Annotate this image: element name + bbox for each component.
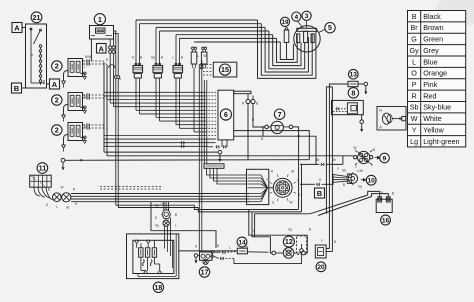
svg-text:6: 6 [224, 110, 228, 119]
arrow to label 10 [361, 178, 366, 181]
svg-text:B: B [343, 183, 345, 187]
svg-text:9: 9 [383, 155, 387, 162]
handlebar switch 18 (outer box) [127, 234, 179, 279]
svg-text:Ch: Ch [155, 204, 159, 208]
relay unit 10 [347, 172, 357, 185]
leads from CDI 11 to bullets [34, 187, 53, 199]
multi-pin connector (main switch coupler) [269, 174, 296, 201]
svg-text:Gy: Gy [155, 224, 159, 228]
coil lead drops to bundle [136, 68, 194, 132]
wire y230 to switch 17 area [151, 202, 216, 248]
main switch 1 [90, 26, 117, 40]
label circle 20 [316, 262, 326, 272]
svg-text:P: P [252, 118, 254, 122]
svg-text:L: L [197, 54, 199, 58]
relay 1 output connector chain [87, 60, 107, 66]
wire y155.8 to flasher 9 [107, 155, 353, 157]
horn right wire to ground [293, 127, 301, 139]
bus corner wires to tail circuit [194, 205, 301, 212]
svg-text:R: R [411, 91, 416, 100]
wire y152 to joint ground [104, 151, 218, 153]
label circle 5 [325, 23, 335, 33]
svg-text:L: L [84, 65, 86, 69]
sidestand switch 17 [194, 250, 214, 264]
ground above joint connector [218, 150, 222, 162]
svg-text:W: W [203, 54, 206, 58]
relay 2 output connector chain [87, 94, 107, 100]
fuse unit 13 [348, 81, 358, 86]
ground terminal above CDI area [61, 158, 65, 170]
harness vertical x332 [331, 87, 333, 252]
leader lines 4,3 [298, 21, 304, 28]
label circle 18 [153, 282, 163, 292]
CDI unit 11 [30, 175, 52, 187]
wire A-box to switch 21 [22, 27, 26, 29]
svg-text:21: 21 [33, 15, 41, 22]
wire bullet down to main bus [247, 104, 249, 160]
label circle 9 [380, 153, 390, 163]
dashed harness pair [100, 187, 161, 190]
fan wires into unit 10 [333, 174, 347, 182]
label circle 17 [199, 267, 209, 277]
svg-text:L/W: L/W [357, 169, 363, 173]
harness verticals to sidestand switch 17 [198, 64, 200, 252]
svg-text:Gy: Gy [410, 46, 420, 55]
svg-text:G: G [411, 35, 417, 44]
svg-text:L: L [371, 163, 373, 167]
svg-text:L: L [253, 229, 255, 233]
misc wire code labels [84, 54, 394, 250]
svg-text:Brown: Brown [423, 23, 443, 32]
wire unit6 to harness y136 [234, 136, 316, 164]
svg-text:Sb: Sb [410, 103, 419, 112]
coil 1 leads up [136, 20, 140, 66]
bus bar from unit 6 [234, 91, 251, 94]
label circle 19 [280, 17, 289, 26]
svg-text:B: B [317, 189, 323, 198]
pickup coil elements [191, 47, 207, 68]
wires from main switch right side down [114, 31, 120, 208]
svg-text:A: A [52, 80, 58, 89]
harness horizontal bundle to CDI unit 6 [104, 92, 216, 148]
starter motor (detail box) [377, 107, 406, 131]
svg-text:W: W [353, 146, 356, 150]
ignition HT wire bundle (nested runs) [136, 20, 316, 78]
svg-text:B: B [84, 95, 86, 99]
label circle 12 [283, 236, 294, 247]
svg-text:B: B [48, 188, 50, 192]
label circle 15 [219, 64, 230, 75]
svg-text:B: B [256, 102, 258, 106]
ignition coil 2 [153, 63, 163, 78]
svg-text:White: White [423, 114, 441, 123]
link fan apex to coupler [269, 187, 274, 189]
ignition coil 3 [173, 63, 183, 78]
label circle 8 [348, 88, 358, 98]
svg-text:B: B [14, 84, 20, 93]
svg-text:Gy: Gy [151, 56, 155, 60]
harness vertical x326 [326, 87, 332, 214]
svg-text:E: E [155, 216, 157, 220]
svg-text:Y: Y [412, 125, 417, 134]
svg-text:R/W: R/W [85, 55, 91, 59]
long wire y160 [65, 159, 309, 161]
svg-text:Br: Br [411, 23, 419, 32]
wire bus into switch 18 left [0, 0, 1, 1]
svg-text:L: L [56, 205, 58, 209]
label circle 2 (unit 2) [52, 95, 62, 105]
svg-text:Lg: Lg [410, 137, 418, 146]
label circle 14 [237, 237, 247, 247]
resistor cap 19 [284, 28, 289, 60]
svg-text:Green: Green [423, 35, 443, 44]
svg-text:B: B [261, 137, 263, 141]
relay 2 (unit 3) [62, 123, 87, 152]
svg-text:1: 1 [98, 15, 102, 24]
svg-text:P: P [412, 80, 417, 89]
tail light 12 [272, 248, 305, 259]
svg-text:L: L [175, 224, 177, 228]
svg-text:4: 4 [294, 14, 298, 21]
dashed connector rows into unit 6 [206, 92, 219, 139]
connector label A (right of switch 21) [50, 79, 60, 89]
harness vertical bus left [103, 62, 105, 152]
lower chain wire from 17 to brake switch [234, 255, 302, 264]
chain 17 to 14 [214, 251, 237, 254]
label circle 21 [31, 12, 42, 23]
svg-text:Red: Red [423, 91, 436, 100]
battery 16 [376, 197, 392, 213]
svg-text:3: 3 [305, 13, 309, 20]
starter relay 8 assembly [332, 100, 364, 114]
svg-text:W: W [411, 114, 418, 123]
wire B-box to switch 21 [22, 87, 26, 89]
horn wire down right of coupler [299, 136, 302, 212]
svg-text:B: B [412, 12, 417, 21]
leader line 5 [319, 30, 325, 33]
svg-text:O: O [411, 69, 417, 78]
wires main switch to fuses [109, 39, 111, 44]
spark plug cap (T shape) [297, 28, 317, 42]
svg-text:B: B [373, 148, 375, 152]
tiny wire code labels near bullets [46, 186, 78, 210]
svg-text:B: B [161, 56, 163, 60]
label circle 7 [274, 109, 284, 119]
main harness verticals from fuses [109, 53, 111, 103]
svg-text:15: 15 [221, 65, 229, 74]
label circle 1 [94, 14, 105, 25]
wire fuse13 to harness [329, 84, 348, 249]
svg-text:Yellow: Yellow [423, 125, 444, 134]
svg-text:7: 7 [278, 110, 282, 119]
CDI unit 6 box [218, 90, 234, 140]
bus pair to switch 18 area [116, 205, 199, 207]
unit 15 box [213, 62, 237, 77]
svg-text:L: L [229, 246, 231, 250]
svg-text:A: A [379, 125, 382, 130]
svg-text:2: 2 [55, 96, 59, 105]
label circle 3 [302, 11, 311, 20]
rear brake switch (dashed) [297, 236, 307, 255]
wires into unit 20 [326, 249, 332, 252]
svg-text:L: L [172, 56, 174, 60]
svg-text:W: W [161, 202, 164, 206]
svg-text:B: B [175, 213, 177, 217]
label circle 2 (unit 3) [52, 125, 62, 135]
svg-text:Light-green: Light-green [423, 137, 459, 146]
battery positive lead [368, 191, 380, 196]
svg-text:L: L [412, 57, 416, 66]
magnifier circle 5 [294, 26, 320, 52]
svg-text:B: B [181, 56, 183, 60]
bullet connector pair 11 [53, 193, 71, 202]
drops from joint connector to fan [207, 168, 247, 184]
main bus wires from bullets [71, 194, 250, 202]
battery negative lead [318, 194, 388, 216]
harness verticals into joint connector [203, 80, 205, 164]
wire unit6 pin to down-corner x309 [234, 131, 310, 160]
svg-text:B: B [140, 56, 142, 60]
horn left wire down [263, 127, 265, 136]
tail light feed wires [249, 210, 307, 254]
svg-text:A: A [379, 108, 382, 113]
fuse 13 right terminal and ground [358, 82, 368, 94]
svg-text:Black: Black [423, 12, 441, 21]
svg-text:W: W [60, 186, 63, 190]
wire colour legend table [408, 11, 466, 147]
diode unit 20 [315, 245, 326, 258]
fuse pair right of A-box [109, 44, 116, 54]
svg-text:5: 5 [328, 25, 332, 32]
fuse unit 14 [237, 248, 247, 254]
svg-text:Pink: Pink [423, 80, 437, 89]
switch 18 internals [135, 234, 176, 277]
handlebar switch 18 (inner box) [133, 240, 174, 273]
svg-text:18: 18 [155, 285, 163, 292]
bullet terminals below bus bar [246, 94, 255, 104]
label circle 2 (unit 1) [52, 61, 62, 71]
svg-text:13: 13 [350, 72, 358, 79]
svg-text:Grey: Grey [423, 46, 439, 55]
horn 7 [265, 121, 293, 133]
connector label B (lower right) [315, 188, 325, 198]
coil 3 leads up [176, 35, 180, 66]
svg-text:Orange: Orange [423, 69, 447, 78]
connector row below unit 6 [208, 140, 227, 148]
dashed leads to unit 15 [200, 63, 213, 75]
wire switch 18 to unit 14 [179, 250, 238, 252]
svg-text:2: 2 [55, 62, 59, 71]
arrow to label 9 [375, 156, 381, 159]
harness fan-in box [247, 169, 269, 204]
label circle 10 [366, 175, 376, 185]
wire with connector to unit 10 [300, 174, 333, 185]
svg-text:A: A [14, 24, 20, 33]
label circle 13 [349, 69, 359, 79]
handlebar bullet connectors [162, 210, 171, 226]
ignition coil 1 [133, 63, 143, 78]
svg-text:A: A [99, 44, 105, 53]
relay 2 (unit 2) [62, 93, 87, 122]
connector label B (left) [12, 83, 22, 93]
svg-text:17: 17 [201, 270, 209, 277]
svg-text:B: B [334, 240, 336, 244]
wires bullets down into switch 18 [165, 218, 171, 241]
svg-text:W: W [289, 201, 292, 205]
tiny pin labels around coupler [266, 170, 300, 205]
coil 2 leads up [156, 27, 160, 65]
flasher relay 9 [354, 150, 373, 165]
handlebar switch assembly 21 (tall box) [26, 24, 47, 88]
svg-text:B: B [309, 228, 311, 232]
svg-text:2: 2 [55, 126, 59, 135]
svg-text:20: 20 [317, 264, 325, 271]
wire bullet to horn [253, 104, 265, 127]
label circle 11 [37, 163, 48, 174]
wire main switch down to relay feed [90, 39, 92, 61]
crossover hops on harness [109, 65, 116, 68]
wire switch 21 to A-box [47, 83, 50, 85]
connector label A (top left) [12, 23, 22, 33]
svg-text:Gy: Gy [288, 228, 292, 232]
relay 8 ground [360, 115, 364, 132]
relay 2 (unit 1) [62, 59, 87, 88]
chain 14 to tail light [247, 251, 268, 253]
svg-text:Sky-blue: Sky-blue [423, 103, 451, 112]
svg-text:16: 16 [382, 217, 390, 224]
svg-text:19: 19 [282, 19, 289, 26]
label circle 6 [220, 109, 231, 120]
svg-text:Gy: Gy [358, 185, 362, 189]
svg-text:12: 12 [285, 237, 293, 246]
tiny labels at bullets [155, 204, 177, 228]
svg-text:B: B [217, 244, 219, 248]
joint connector (flat box) [204, 164, 224, 169]
svg-text:10: 10 [368, 178, 376, 185]
relay 3 output connector chain [87, 124, 107, 130]
chain 17 lower output [214, 256, 234, 260]
svg-text:11: 11 [39, 164, 47, 173]
connector label A (below main switch) [97, 44, 107, 54]
svg-text:B: B [392, 192, 394, 196]
svg-text:Blue: Blue [423, 57, 437, 66]
wires into bullets from bus [164, 202, 169, 211]
svg-text:8: 8 [351, 88, 355, 97]
wire lower with connector to 9 [300, 156, 343, 166]
label circle 4 [292, 12, 301, 21]
svg-text:Sb: Sb [332, 158, 336, 162]
battery lead diagonal to harness [255, 195, 368, 237]
label circle 16 [381, 215, 391, 225]
svg-text:Sb: Sb [342, 169, 346, 173]
